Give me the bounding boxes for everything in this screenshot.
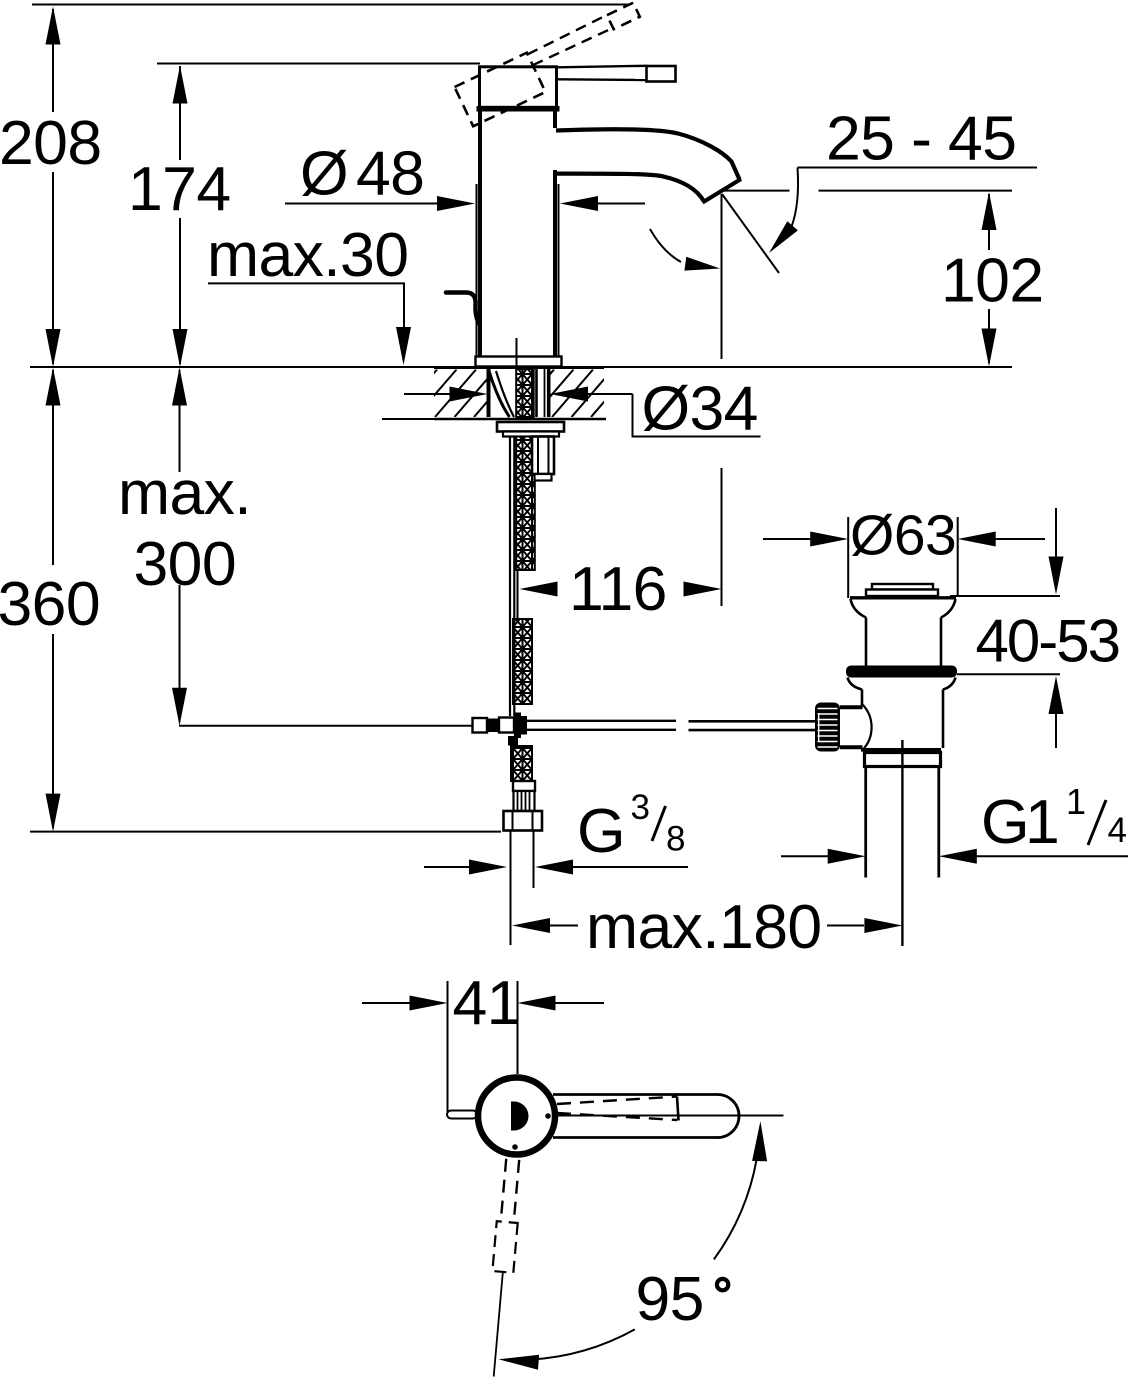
svg-text:25 - 45: 25 - 45 bbox=[826, 104, 1016, 174]
svg-text:Ø63: Ø63 bbox=[850, 504, 956, 568]
svg-text:max.180: max.180 bbox=[586, 892, 822, 962]
top view: dashed lever overlay bbox=[557, 1097, 679, 1121]
braided hose in hole bbox=[516, 369, 534, 417]
drain body bbox=[861, 690, 864, 707]
threaded stud in hole bbox=[535, 369, 538, 417]
counter deck bottom line bbox=[382, 418, 434, 420]
svg-text:40-53: 40-53 bbox=[976, 608, 1119, 675]
drain knob stem bbox=[840, 705, 863, 709]
G1 1/4 extension lines bbox=[865, 876, 867, 878]
dimension Ø63 arrows bbox=[763, 532, 1045, 547]
svg-text:1: 1 bbox=[1025, 787, 1059, 857]
drain body bottom edge bbox=[861, 748, 941, 752]
dimension 208 vertical line with arrows bbox=[46, 7, 61, 368]
counter deck top line bbox=[30, 366, 434, 368]
label Ø34 with leader bbox=[633, 374, 761, 444]
svg-text:1: 1 bbox=[1066, 781, 1085, 822]
top view: detail dots bbox=[545, 1113, 551, 1119]
svg-text:208: 208 bbox=[0, 108, 101, 178]
faucet lever (solid) bbox=[558, 66, 676, 82]
dimension 40-53 vertical with arrows bbox=[1049, 508, 1064, 748]
svg-text:48: 48 bbox=[356, 139, 424, 209]
dimension 102 extension line bbox=[722, 190, 790, 192]
dimension Ø63 extension lines bbox=[847, 517, 849, 598]
dimension Ø48 arrows bbox=[285, 196, 645, 211]
faucet body bbox=[480, 109, 555, 356]
dimension max.180 bbox=[512, 892, 902, 962]
drain centerline bbox=[901, 740, 903, 946]
braided hose second segment bbox=[513, 619, 532, 704]
faucet handle dashed (raised position) bbox=[455, 2, 652, 126]
svg-text:300: 300 bbox=[134, 529, 236, 599]
dimension Ø34 arrows at deck hole bbox=[404, 387, 633, 402]
svg-text:G: G bbox=[577, 796, 625, 866]
svg-text:G: G bbox=[981, 787, 1029, 857]
top view: solid lever bbox=[553, 1095, 739, 1138]
top view: faucet body circle bbox=[478, 1078, 555, 1155]
faucet centerline stub bbox=[516, 338, 518, 369]
dimension 208 top extension line bbox=[32, 4, 629, 6]
faucet spout bbox=[556, 129, 741, 202]
mounting stud nut bbox=[532, 437, 554, 481]
drain neck bbox=[865, 618, 868, 667]
drain rod socket bbox=[863, 705, 872, 751]
dimension max.300 bottom extension line bbox=[179, 725, 473, 727]
label max.30 with leader bbox=[207, 220, 411, 365]
drain O-ring seal bbox=[846, 666, 957, 678]
label G1 1/4 bbox=[981, 781, 1127, 857]
label 25 - 45 with leader arrow bbox=[769, 104, 1037, 254]
faucet base plate bbox=[476, 357, 562, 367]
95 degree arc with arrows bbox=[499, 1121, 767, 1370]
dimension max.300 vertical with arrows bbox=[172, 368, 187, 726]
dimension 102 vertical with arrows bbox=[982, 192, 997, 367]
G 3/8 connection nut bbox=[504, 811, 543, 831]
top view: lever centerline bbox=[553, 1115, 784, 1117]
drain flange bbox=[850, 598, 956, 618]
svg-text:max.30: max.30 bbox=[207, 220, 408, 290]
spout outlet vertical reference line bbox=[721, 194, 723, 359]
Ø48 extension lines bbox=[476, 184, 478, 356]
hose thin section bbox=[517, 570, 519, 619]
pop-up rod handle hook on body bbox=[446, 293, 479, 324]
svg-text:8: 8 bbox=[666, 820, 685, 859]
counter hatching bbox=[396, 370, 671, 418]
top view: cartridge hole bbox=[511, 1102, 529, 1131]
pop-up rod curved section in hole bbox=[489, 371, 510, 417]
dimension G1 1/4 arrows bbox=[781, 849, 1128, 864]
top view: dashed lever at 95 degrees bbox=[483, 1158, 523, 1377]
svg-text:3: 3 bbox=[631, 788, 650, 827]
dimension 40-53 extension lines bbox=[950, 595, 1060, 597]
supply pipe below nut bbox=[510, 831, 512, 946]
svg-text:360: 360 bbox=[0, 569, 100, 639]
dimension 174 extension line bbox=[157, 63, 480, 65]
top view: left pin bbox=[447, 1111, 477, 1119]
svg-text:4: 4 bbox=[1108, 811, 1127, 850]
svg-text:Ø: Ø bbox=[300, 139, 348, 209]
braided hose third segment bbox=[511, 746, 532, 781]
svg-text:41: 41 bbox=[453, 968, 521, 1038]
deck mounting hole edges bbox=[487, 369, 491, 417]
svg-text:102: 102 bbox=[941, 246, 1043, 316]
faucet handle cap (solid) bbox=[477, 67, 560, 109]
dimension 360 bottom extension line bbox=[30, 831, 501, 833]
svg-text:max.: max. bbox=[118, 458, 251, 528]
dimension 174 vertical line with arrows bbox=[173, 66, 188, 368]
hose end ribbed section bbox=[514, 791, 535, 811]
drain body flare below seal bbox=[848, 678, 956, 690]
hose end transition bbox=[513, 781, 535, 791]
dimension 116 arrows bbox=[520, 582, 722, 597]
svg-text:116: 116 bbox=[569, 554, 667, 624]
mounting flange washer below deck bbox=[497, 422, 564, 437]
svg-text:Ø34: Ø34 bbox=[642, 374, 758, 444]
pop-up rod joint fitting bbox=[473, 713, 528, 746]
drain tailpiece joint ring bbox=[865, 753, 941, 767]
dimension 360 vertical with arrows bbox=[46, 368, 61, 832]
label G 3/8 bbox=[577, 788, 685, 866]
top view: dimension 41 bbox=[362, 968, 604, 1112]
drain plug cap bbox=[866, 584, 938, 596]
water stream diagonal line bbox=[722, 194, 779, 273]
horizontal pull rod to drain bbox=[527, 721, 816, 730]
drain knurled knob bbox=[815, 703, 840, 752]
dimension G3/8 arrows bbox=[424, 860, 688, 875]
stream swing arc with arrow bbox=[650, 229, 720, 271]
pop-up rod vertical below deck bbox=[509, 437, 511, 717]
svg-text:174: 174 bbox=[128, 154, 230, 224]
braided hose segment below flange bbox=[516, 437, 535, 571]
svg-text:95: 95 bbox=[636, 1264, 704, 1334]
drain tailpiece bbox=[864, 767, 867, 878]
